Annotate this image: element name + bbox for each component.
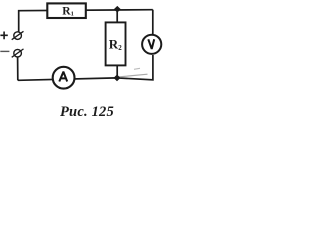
node junction top [114, 6, 121, 13]
wire right side: corner down to voltmeter top [152, 10, 154, 34]
ammeter A1 [53, 67, 75, 89]
plus sign [0, 32, 7, 40]
terminal minus clamp [14, 49, 22, 57]
minus sign [0, 50, 9, 52]
caption Puc. 125 [60, 102, 114, 122]
label V [148, 39, 154, 48]
terminal plus clamp [14, 32, 22, 40]
voltmeter V1 [142, 35, 161, 54]
resistor R2 [106, 22, 126, 65]
label A [59, 72, 67, 81]
wire R2 branch vertical [116, 10, 118, 78]
wire bottom: from minus terminal down and along the bottom [18, 55, 153, 80]
wire top: battery + up to R1 and across to voltmeter corner [19, 10, 153, 32]
node junction bottom [114, 75, 121, 82]
resistor R1 [47, 3, 86, 18]
wire faint scan smear above bottom wire [119, 68, 148, 77]
